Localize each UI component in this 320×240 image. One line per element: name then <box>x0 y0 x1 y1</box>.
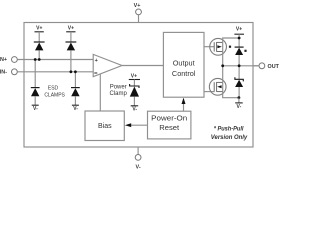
junction on IN+ line (D1) <box>38 58 41 61</box>
svg-text:V+: V+ <box>36 25 42 31</box>
junction on IN+ line (D3) <box>34 58 37 61</box>
svg-text:V-: V- <box>237 104 242 110</box>
wire Power-On Reset to Output Control (arrow up) <box>182 98 186 112</box>
junction OUT / Q1-Q2 <box>221 64 224 67</box>
wire comparator output to Output Control <box>122 65 163 67</box>
svg-text:Reset: Reset <box>159 123 180 132</box>
label ESD CLAMPS <box>44 86 65 99</box>
V+ rail symbol above ESD diode D2 <box>66 25 75 32</box>
transistor Q2 (bottom N-channel MOSFET) <box>209 78 226 95</box>
svg-text:V-: V- <box>132 106 137 112</box>
note Push-Pull Version Only <box>211 126 248 142</box>
junction V+ rail / Q1 drain <box>238 37 241 40</box>
block Bias <box>85 111 124 141</box>
wire gate of Q1 <box>204 46 215 48</box>
wire right border to OUT terminal <box>253 65 259 67</box>
svg-text:IN-: IN- <box>0 69 7 75</box>
ESD diode D4 (V- to IN-) <box>71 72 80 105</box>
V+ rail symbol (output stage) <box>234 27 244 47</box>
V- rail symbol (output stage) <box>235 98 243 111</box>
svg-text:+: + <box>95 58 98 64</box>
wire OUT node <box>223 65 259 67</box>
svg-text:V+: V+ <box>68 25 74 31</box>
terminal V- (bottom) <box>135 147 141 171</box>
junction V- rail / Q2 source <box>238 96 241 99</box>
svg-text:OUT: OUT <box>268 64 280 70</box>
junction on IN- line (D4) <box>74 70 77 73</box>
svg-text:* Push-Pull: * Push-Pull <box>214 126 244 133</box>
asterisk near Q1 <box>229 46 231 48</box>
ESD diode D2 (IN- to V+) <box>66 32 77 72</box>
diode D5 (flyback, OUT to V+) <box>235 47 244 66</box>
svg-text:Bias: Bias <box>98 123 112 130</box>
wire Q2 source to V- rail <box>223 92 239 98</box>
terminal IN- <box>0 69 17 75</box>
svg-text:V+: V+ <box>236 27 242 33</box>
svg-text:Control: Control <box>172 69 196 78</box>
transistor Q1 (top P-channel MOSFET) <box>210 38 227 55</box>
svg-text:V-: V- <box>136 165 141 171</box>
svg-text:CLAMPS: CLAMPS <box>44 92 65 98</box>
main IC boundary <box>24 23 253 148</box>
wire Q1 source down to OUT node <box>222 52 224 66</box>
V+ rail symbol above Power Clamp <box>129 73 140 79</box>
terminal V+ (top) <box>134 3 142 23</box>
V- rail symbol below Power Clamp <box>131 106 139 113</box>
svg-text:Power-On: Power-On <box>151 114 187 123</box>
svg-text:IN+: IN+ <box>0 57 7 63</box>
terminal IN+ <box>0 57 17 63</box>
junction OUT / diodes <box>238 64 241 67</box>
junction on IN- line (D2) <box>70 70 73 73</box>
wire IN- to comparator <box>17 71 93 73</box>
wire Q2 drain up to OUT node <box>222 66 224 83</box>
svg-text:Power: Power <box>110 84 127 90</box>
zener D6 (V- to OUT) <box>235 66 243 98</box>
V+ rail symbol above ESD diode D1 <box>35 25 44 32</box>
wire gate of Q2 <box>204 91 215 93</box>
wire Q1 drain to V+ rail <box>223 38 239 52</box>
svg-text:Output: Output <box>173 58 195 67</box>
svg-text:V-: V- <box>33 106 38 112</box>
svg-text:V-: V- <box>73 106 78 112</box>
zener power clamp Z1 <box>130 80 139 106</box>
svg-text:Version Only: Version Only <box>211 134 248 141</box>
svg-text:ESD: ESD <box>48 86 59 92</box>
wire Power-On Reset to Bias (arrow) <box>125 123 148 127</box>
wire IN+ to comparator <box>17 59 93 61</box>
terminal OUT <box>259 63 280 70</box>
block Power-On Reset <box>148 111 191 139</box>
label Power Clamp <box>110 84 128 97</box>
ESD diode D1 (IN+ to V+) <box>34 32 45 60</box>
ESD diode D3 (V- to IN+) <box>31 60 40 106</box>
V- rail symbol below ESD diode D3 <box>32 105 39 112</box>
block Output Control <box>163 32 204 97</box>
V- rail symbol below ESD diode D4 <box>72 105 79 112</box>
svg-text:Clamp: Clamp <box>110 91 128 97</box>
svg-text:V+: V+ <box>131 73 137 79</box>
svg-text:V+: V+ <box>134 3 141 9</box>
wire comparator to Bias <box>99 74 101 111</box>
op-amp comparator A1 <box>93 54 122 76</box>
asterisk near D5 <box>244 50 246 52</box>
